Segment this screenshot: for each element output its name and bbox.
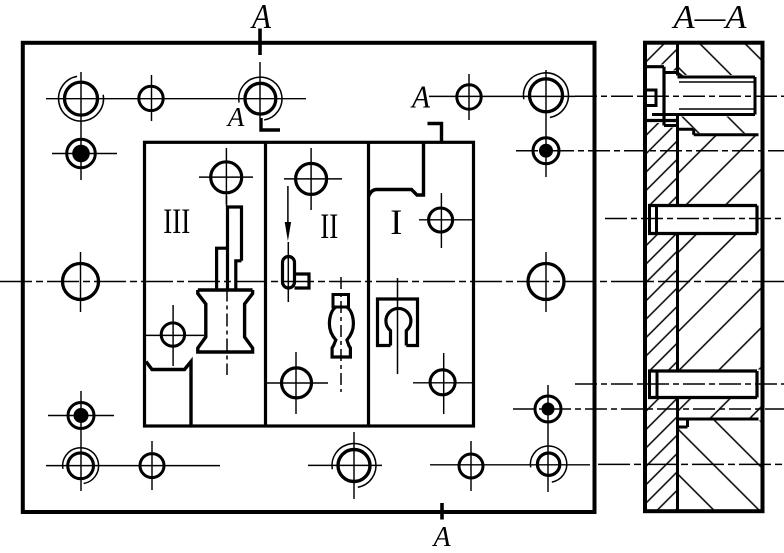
tapped hole top-center [245,83,276,114]
zone III spool punch outline [198,290,253,352]
row4 dowel centerline left [48,415,114,417]
plain hole bottom-right small [459,454,483,478]
section hatch left strip [647,43,677,510]
dowel hole left upper [67,139,96,168]
tapped hole bottom-center [338,450,370,482]
divider line between zone II and I [367,142,370,426]
guide hole middle-left [63,264,99,300]
pin1 bottom line [648,232,757,235]
zone I hat profile [369,144,424,197]
capsule punch [283,257,295,289]
section hatch right top part [679,43,761,134]
row1 centerline right segment [429,95,575,97]
counterbore bottom step [664,124,678,127]
section plate outline [645,43,763,512]
zone I upper circle [429,208,453,232]
row1 centerline left segment [46,98,306,100]
svg-text:A: A [250,0,271,36]
row5 centerline left segment [46,465,220,467]
svg-text:A: A [410,79,430,115]
pin1 centerline [605,218,784,220]
zone III stepped punch profile [217,207,242,289]
section jog L right [428,124,442,143]
screw clearance hole top [678,76,756,79]
svg-text:A—A: A—A [671,0,746,36]
section hatch right bottom part [679,421,761,510]
divider line between zone III and II [264,142,267,426]
row5 centerline center segment [308,464,382,466]
tapped hole top-right [530,79,563,112]
plate outline (top view) [23,43,595,512]
pin1 right end face [755,206,758,234]
pin2 top line [648,369,757,372]
screw hole bottom [652,113,755,116]
omega centerline [397,278,399,374]
tapped hole top-left [65,82,98,115]
pin1 top line [648,204,757,207]
section jog L at top-center hole [261,118,280,130]
zone III corner notch profile [146,362,191,426]
row4 dowel centerline right into section [513,408,784,410]
svg-text:I: I [390,202,402,242]
screw head outline [645,65,664,68]
dowel hole right upper [533,138,559,164]
row2 dowel centerline left [52,153,117,155]
plain hole bottom x152 [140,454,164,478]
plate joint vertical [676,42,679,76]
dowel hole right lower [535,396,561,422]
bottle centerline [340,277,342,392]
screw slot [644,90,656,106]
zone I lower circle [430,370,455,395]
tapped hole bottom-right [537,453,559,475]
tapped hole bottom-left [68,453,94,479]
section hatch right middle part [679,136,761,425]
pin1 left end faces [648,206,651,234]
screw centerline into section [575,95,784,97]
svg-text:A: A [226,102,245,132]
die insert rectangle [145,142,474,426]
feed direction arrow [287,186,289,228]
plain hole top x150 [139,86,163,110]
svg-text:III: III [163,201,190,241]
zone III spool centerline [226,196,228,206]
guide hole middle-right [528,264,564,300]
svg-text:A: A [431,522,451,548]
pin2 bottom line [648,396,757,399]
section tick top [258,29,262,56]
omega punch arc [386,308,411,345]
pin2 left end faces [648,371,651,398]
main horizontal centerline [0,281,784,283]
thread line lower [679,108,755,110]
plain hole top-right small [457,85,481,109]
row2 dowel centerline right and into section [516,150,784,152]
zone III top circle [211,162,242,193]
bottle punch cap square [333,295,349,308]
zone III left circle [161,323,184,346]
zone II top circle [296,163,327,194]
section tick bottom [440,503,444,520]
dowel hole left lower [68,403,94,429]
pin2 right end face [755,371,758,398]
capsule tab [295,274,310,288]
omega punch frame [378,299,418,346]
thread line upper [679,81,755,83]
row5 centerline right segment into section [430,464,590,466]
thread end line [754,77,757,115]
lower step line [678,418,759,421]
svg-text:II: II [320,206,338,246]
zone II bottom circle [282,368,312,398]
pin2 centerline [575,383,784,385]
bottle punch body [329,307,353,357]
capsule centerline [287,242,289,302]
